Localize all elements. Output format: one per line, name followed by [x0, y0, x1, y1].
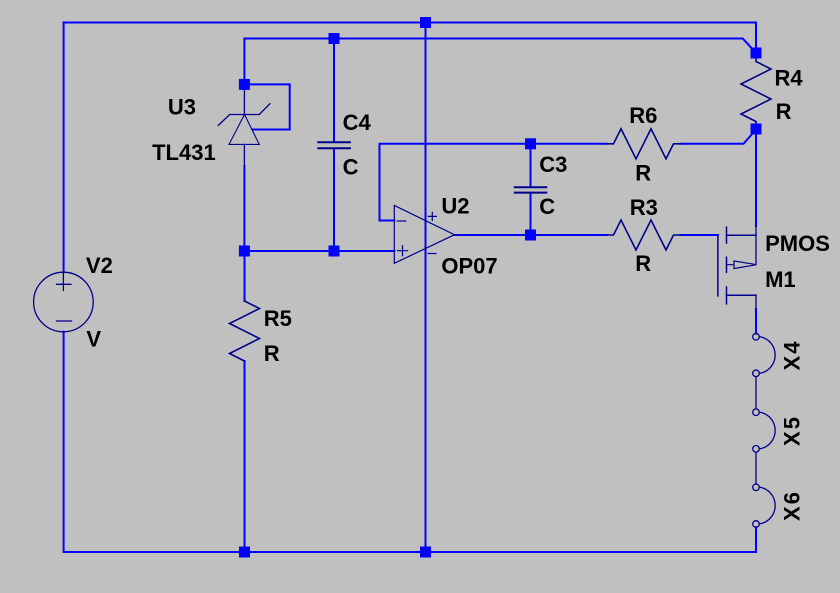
- wire R5 bottom lead to bottom rail: [244, 361, 246, 552]
- svg-text:R5: R5: [264, 306, 292, 331]
- wire R6 right lead to R4 bottom junction: [681, 130, 757, 144]
- wire C4 column top: [333, 39, 335, 142]
- svg-text:M1: M1: [765, 267, 796, 292]
- resistor R5: [230, 301, 260, 361]
- svg-text:V2: V2: [86, 253, 113, 278]
- node op-amp output: [525, 230, 536, 241]
- op-amp U2 OP07: [394, 205, 454, 263]
- node bottom rail x R5: [239, 547, 250, 558]
- wire C3 top junction to R6 left lead: [531, 143, 607, 145]
- wire op-amp output to R3 left lead: [455, 234, 607, 236]
- wire R4 bottom junction to PMOS drain: [755, 129, 757, 226]
- wire C3 column upper: [530, 144, 532, 187]
- svg-text:R6: R6: [629, 103, 657, 128]
- wire top rail from V2 to R4 corner: [64, 23, 756, 54]
- svg-text:PMOS: PMOS: [765, 231, 830, 256]
- wire node row to op-amp plus input: [244, 250, 394, 252]
- svg-text:V: V: [86, 327, 101, 352]
- svg-text:X4: X4: [780, 340, 805, 371]
- capacitor C4: [318, 142, 350, 148]
- node C4 bottom: [329, 246, 340, 257]
- svg-text:X5: X5: [780, 415, 805, 446]
- svg-text:X6: X6: [780, 490, 805, 521]
- svg-text:C3: C3: [539, 152, 567, 177]
- wire PMOS source down to X4: [755, 309, 757, 334]
- wire second rail from TL431 column to R4 top junction: [244, 39, 756, 85]
- svg-text:R: R: [635, 251, 651, 276]
- svg-text:TL431: TL431: [152, 140, 216, 165]
- lamp X5: [753, 409, 775, 484]
- node C3 top: [525, 138, 536, 149]
- svg-text:R: R: [635, 161, 651, 186]
- node top rail x op-amp rail: [420, 17, 431, 28]
- svg-text:C: C: [343, 154, 359, 179]
- wire TL431 anode down to node row: [243, 166, 245, 251]
- svg-text:R4: R4: [775, 65, 804, 90]
- node TL431 anode / R5 top: [239, 246, 250, 257]
- svg-text:OP07: OP07: [441, 253, 497, 278]
- wire C4 column bottom: [333, 149, 335, 251]
- wire feedback from C3 top to op-amp minus input: [380, 144, 531, 221]
- svg-text:R3: R3: [630, 195, 658, 220]
- node bottom rail x op-amp rail: [420, 547, 431, 558]
- node TL431 cathode: [239, 79, 250, 90]
- capacitor C3: [515, 187, 547, 192]
- svg-text:R: R: [264, 341, 280, 366]
- lamp X6: [753, 484, 775, 527]
- voltage source V2: [34, 272, 94, 332]
- wire op-amp supply rail vertical: [425, 23, 427, 553]
- node R4 top: [751, 48, 762, 59]
- svg-text:R: R: [776, 99, 792, 124]
- node R4 bottom: [751, 124, 762, 135]
- wire C3 column lower: [530, 193, 532, 235]
- svg-text:C: C: [539, 194, 555, 219]
- resistor R4: [741, 53, 771, 129]
- lamp X4: [753, 333, 775, 408]
- wire V2 column top: [63, 23, 65, 273]
- node second rail x C4: [329, 33, 340, 44]
- resistor R3: [607, 220, 681, 250]
- transistor M1 PMOS: [718, 226, 756, 310]
- svg-text:U3: U3: [168, 94, 196, 119]
- svg-text:C4: C4: [343, 110, 372, 135]
- shunt regulator U3 TL431: [218, 84, 270, 166]
- wire TL431 ref loop: [244, 84, 289, 129]
- wire R5 top lead: [244, 251, 246, 301]
- wire V2 column bottom and bottom rail to X6: [64, 332, 756, 552]
- resistor R6: [607, 129, 681, 159]
- svg-text:U2: U2: [441, 193, 469, 218]
- wire R3 right lead to PMOS gate: [681, 234, 718, 236]
